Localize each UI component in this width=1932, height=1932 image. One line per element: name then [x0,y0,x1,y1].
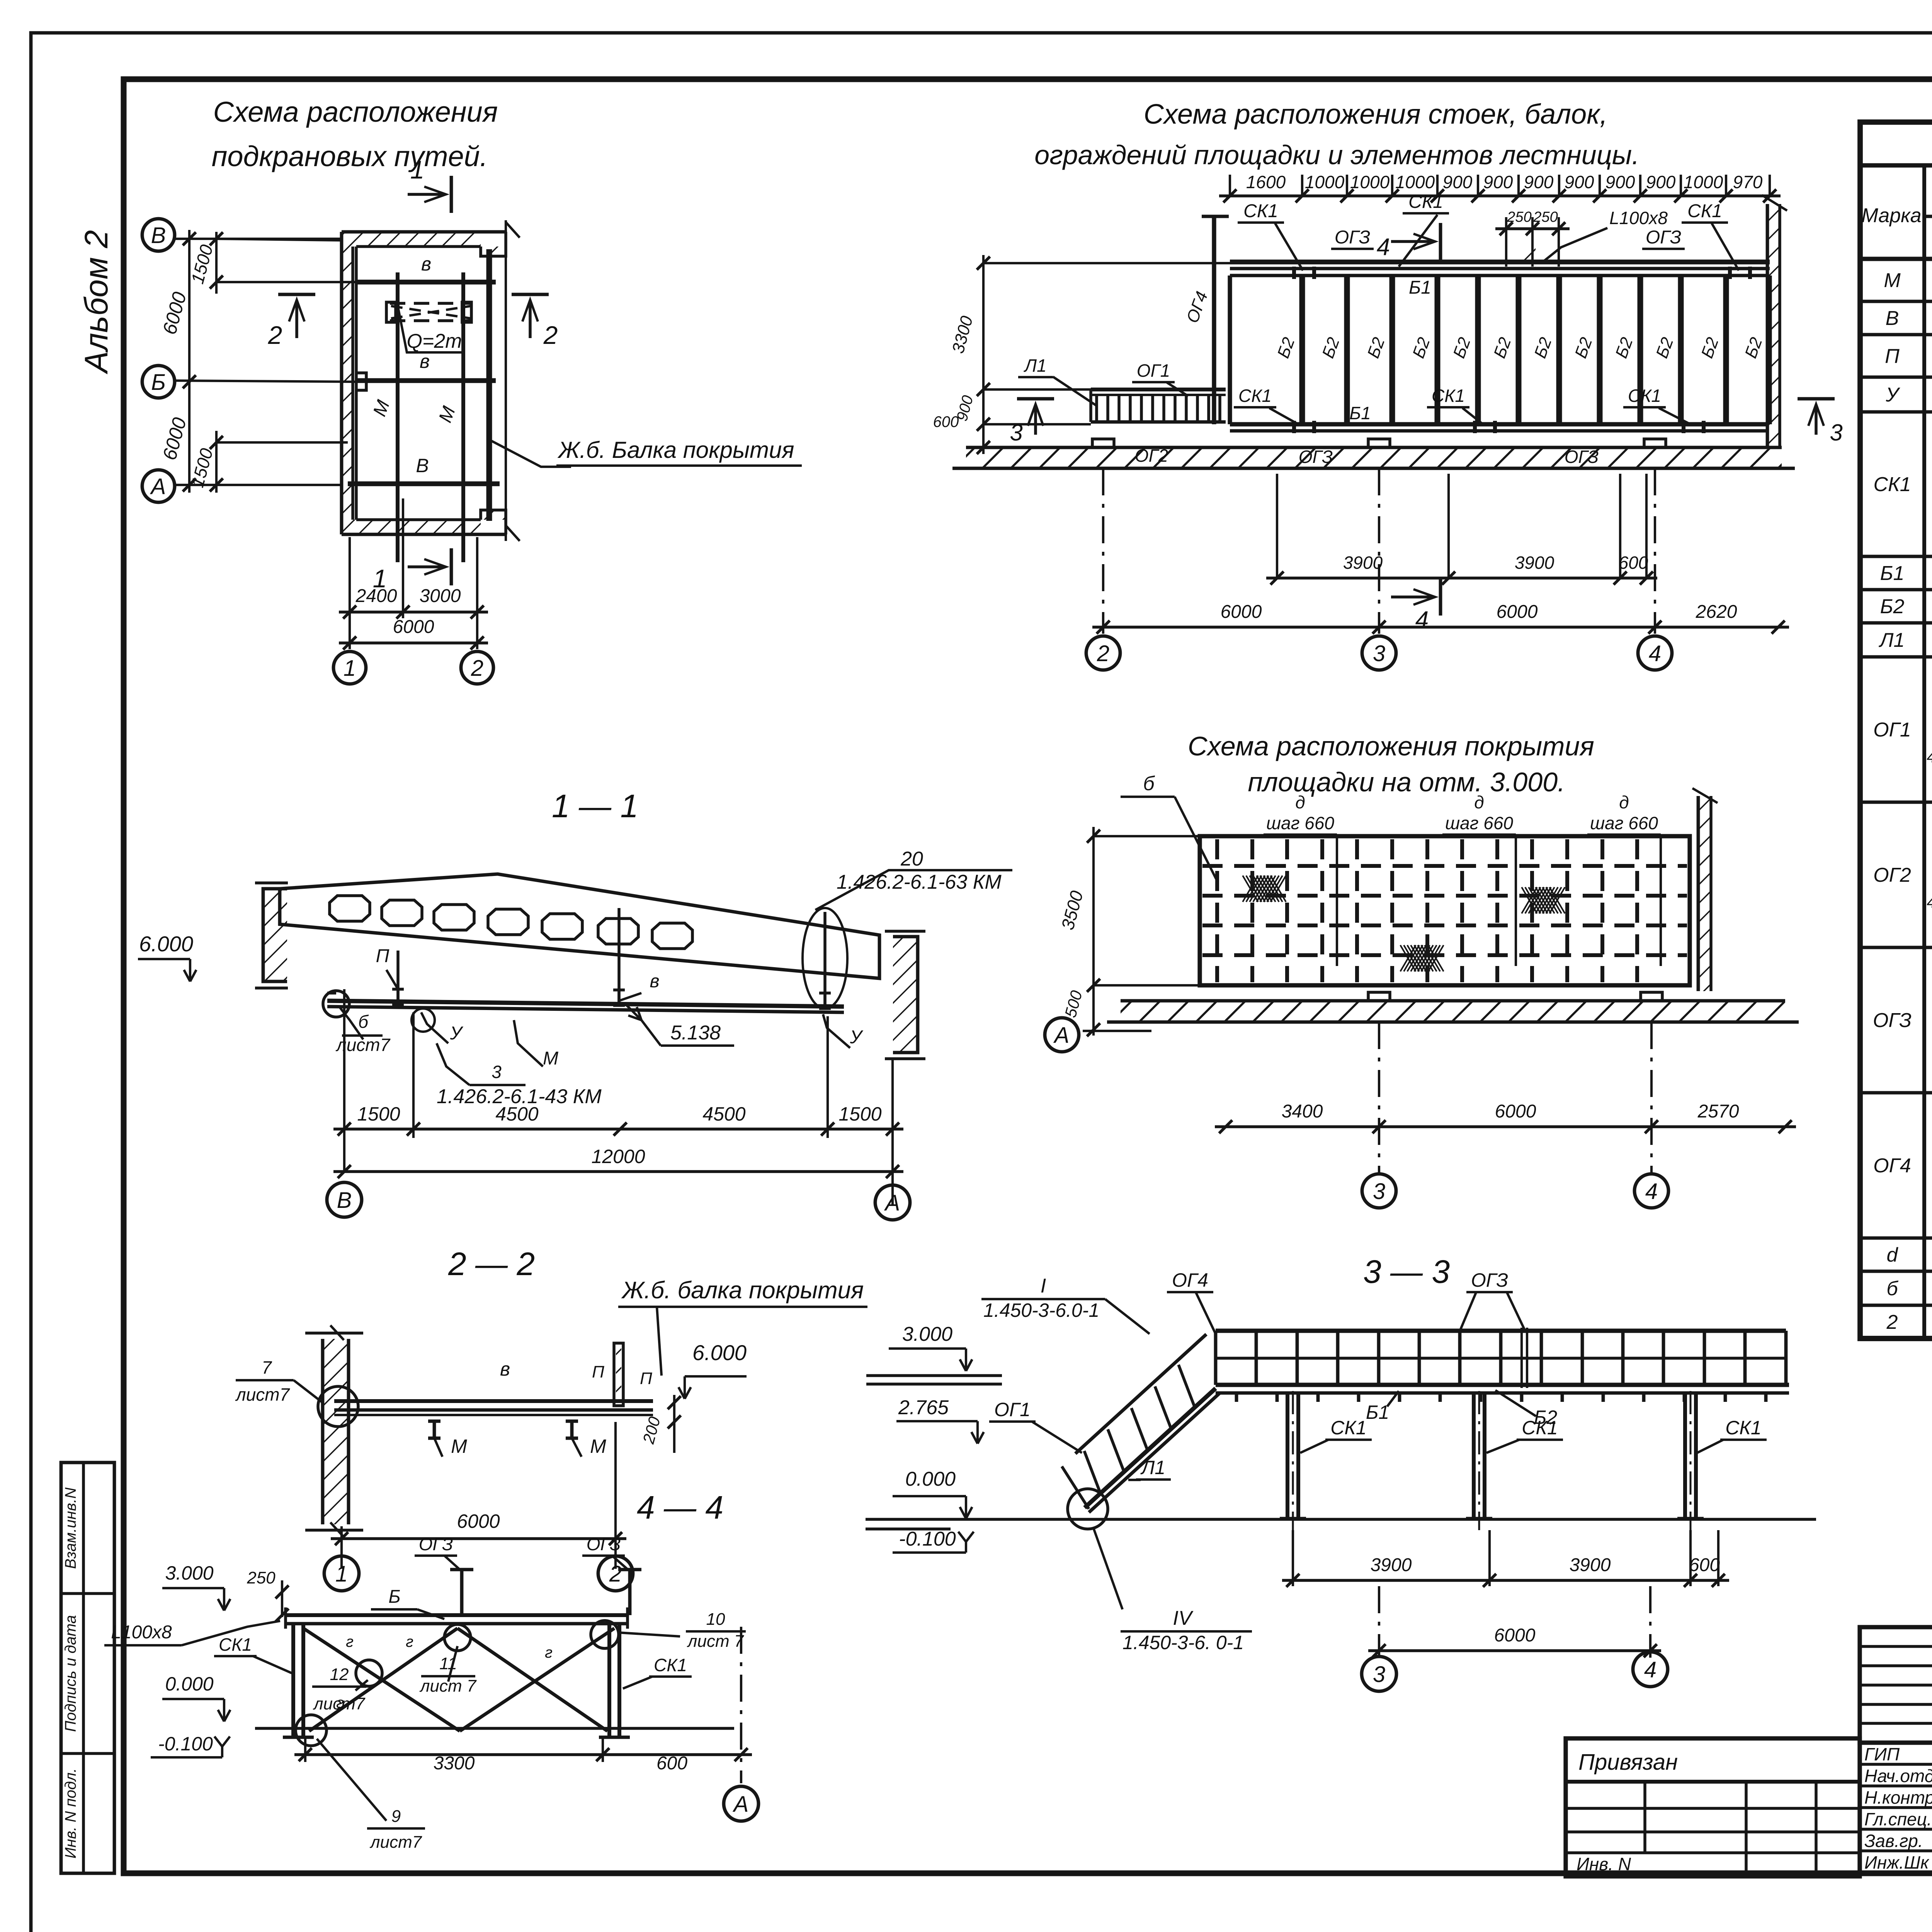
svg-text:П: П [640,1369,652,1388]
4-4 legs СК1 [291,1624,295,1737]
section mark 4 (bottom) [1391,595,1434,599]
svg-text:3000: 3000 [420,586,461,606]
svg-text:4: 4 [1415,607,1429,633]
1-1 grid circle А [875,1185,910,1220]
svg-text:У: У [450,1023,464,1044]
deck left dims 3500/500 [1092,827,1095,1036]
svg-text:ОГЗ: ОГЗ [1471,1269,1508,1291]
привязан table [1566,1738,1860,1876]
svg-text:12000: 12000 [591,1146,645,1167]
svg-text:1.450-3-6. 0-1: 1.450-3-6. 0-1 [1122,1632,1244,1653]
svg-text:3: 3 [1830,420,1842,446]
svg-text:ОГЗ: ОГЗ [1873,1009,1912,1032]
svg-text:2570: 2570 [1697,1101,1739,1122]
svg-text:б: б [358,1012,369,1032]
svg-text:3.000: 3.000 [165,1562,213,1584]
title block: staff rows block [1860,1743,1932,1873]
svg-text:СК1: СК1 [1432,386,1465,406]
svg-text:3900: 3900 [1570,1555,1611,1575]
svg-text:3.000: 3.000 [902,1323,952,1345]
svg-text:900: 900 [1565,172,1594,192]
svg-text:б: б [1143,772,1155,795]
section mark 3 (right) [1815,406,1818,435]
svg-text:ОГ2: ОГ2 [1135,446,1168,466]
2-2 detail circle at wall joint [318,1386,358,1427]
wall bottom band right ledge [481,510,506,534]
svg-text:6.000: 6.000 [139,932,193,956]
3-3 dim 6000 [1368,1649,1661,1652]
axis line А [175,484,342,486]
svg-text:СК1: СК1 [1725,1417,1761,1439]
svg-text:250: 250 [1507,209,1531,225]
floor band below deck [1121,999,1785,1003]
svg-text:Схема расположения пок: Схема расположения покрытия [1188,731,1594,761]
3-3 elevation 0.000 [960,1507,966,1519]
1-1 grid circle В [327,1182,362,1217]
wall inner edge line [355,247,358,520]
3-3 railing posts [1214,1331,1218,1385]
svg-text:Схема расположения: Схема расположения [213,96,498,128]
1-1 detail bubble 20 / 1.426.2-6.1-63 КМ [803,908,847,1009]
2-2 channel П at right [614,1343,623,1406]
grid circle 4 (elevation) [1638,636,1672,670]
svg-text:СК1: СК1 [1243,201,1278,221]
bottom dimension 2400/3000 [339,611,488,614]
2-2 wall hatched [323,1339,349,1524]
svg-text:Л1: Л1 [1879,629,1905,651]
svg-text:2: 2 [268,321,282,349]
1-1 left wall hatched [263,889,287,981]
left margin stamp column [61,1463,114,1873]
svg-text:9: 9 [391,1807,401,1826]
svg-text:д: д [1474,792,1484,812]
1-1 roof slab holes [330,896,370,921]
svg-text:3400: 3400 [1282,1101,1323,1122]
section mark 2 (left) [295,301,298,338]
vertical dimension line 6000/6000 [188,230,190,493]
1-1 dimension chain 1500/4500/4500/1500 [333,1128,903,1131]
svg-text:Инв. N подл.: Инв. N подл. [62,1768,79,1859]
svg-text:М: М [1884,269,1901,292]
svg-text:600: 600 [1619,553,1648,573]
axis line В [175,238,342,240]
svg-text:в: в [650,971,659,992]
deck edge beam line [1230,274,1767,277]
crane beam В (middle) [355,378,496,383]
svg-text:1000: 1000 [1305,172,1345,192]
elements table: outer frame [1860,122,1932,1338]
svg-text:СК1: СК1 [1628,386,1661,406]
svg-text:А: А [733,1792,749,1817]
svg-text:Б1: Б1 [1880,562,1905,585]
wall top band right ledge [481,232,506,256]
svg-text:900: 900 [1483,172,1513,192]
4-4 platform deck [286,1613,628,1617]
svg-text:1500: 1500 [357,1103,400,1125]
vertical dimension 1500 bottom [215,431,218,493]
svg-text:900: 900 [1443,172,1473,192]
svg-text:2: 2 [609,1561,622,1587]
grid circle 1 [333,651,366,684]
axis line Б [175,381,355,382]
3-3 rail break mark [1520,1328,1523,1388]
svg-text:П: П [592,1362,604,1381]
svg-text:3300: 3300 [434,1753,475,1774]
svg-text:Б2: Б2 [1534,1406,1558,1428]
svg-text:6000: 6000 [393,617,434,637]
svg-text:Л1: Л1 [1140,1457,1165,1478]
svg-text:шаг 660: шаг 660 [1266,813,1334,833]
svg-text:250: 250 [247,1568,276,1587]
svg-text:г: г [346,1633,354,1650]
svg-text:6000: 6000 [1221,602,1262,622]
crane rail М (right) [461,272,465,562]
1-1 beam В end supports [323,991,349,1017]
svg-text:лист7: лист7 [369,1833,422,1852]
svg-text:ОГЗ: ОГЗ [1565,447,1599,467]
wall plan - vertical hatched band [342,232,353,534]
4-4 ground line [255,1727,734,1730]
svg-text:2: 2 [1886,1311,1898,1333]
svg-text:СК1: СК1 [1238,386,1272,406]
svg-text:подкрановых путей.: подкрановых путей. [212,140,488,172]
svg-text:3900: 3900 [1371,1555,1412,1575]
3-3 grid circle 3 [1362,1656,1396,1691]
svg-text:IV: IV [1173,1607,1193,1629]
grid circle 2 [461,651,493,684]
wall break marks [506,222,520,238]
svg-text:3900: 3900 [1343,553,1383,573]
svg-text:В: В [416,455,429,476]
dim chain 6000/6000/2620 [1092,626,1789,629]
svg-text:900: 900 [1605,172,1635,192]
svg-text:I: I [1041,1275,1046,1297]
1-1 dimension 12000 [333,1170,903,1173]
4-4 detail circles [296,1715,327,1746]
vertical dimension 1500 top [215,232,218,294]
floor pilaster notches [1092,439,1114,447]
svg-text:1000: 1000 [1395,172,1435,192]
svg-text:ОГЗ: ОГЗ [1299,447,1333,467]
upper handrail lines ОГЗ [1230,260,1770,265]
section mark 4 (top) [1391,240,1434,243]
svg-text:ОГ1: ОГ1 [994,1399,1031,1420]
grid circle 2 (elevation) [1086,636,1120,670]
2-2 beam В [334,1399,653,1403]
svg-text:2: 2 [471,656,483,681]
svg-text:1 — 1: 1 — 1 [552,788,638,824]
2-2 dim 6000 [331,1537,626,1540]
1-1 roof slab outline [280,874,879,978]
3-3 stair railing rail [1075,1334,1206,1454]
4-4 railing posts (section) [460,1570,464,1615]
svg-text:4 — 4: 4 — 4 [637,1489,723,1526]
svg-text:лист7: лист7 [235,1384,290,1405]
ОГ4 end post [1212,216,1216,424]
crane beam В (top) [355,280,496,285]
svg-text:г: г [545,1644,553,1661]
svg-text:600: 600 [1689,1555,1720,1575]
svg-text:П: П [1885,345,1900,367]
svg-text:Н.контр.: Н.контр. [1864,1787,1932,1808]
svg-text:Инж.Шк: Инж.Шк [1864,1852,1930,1872]
dim chain 3900/3900/600 [1266,577,1657,580]
title block: upper small table [1860,1627,1932,1743]
svg-text:д: д [1295,792,1305,812]
splice detail 250/250 + L100x8 [1495,227,1570,230]
2-2 I-symbol М (left) [428,1420,440,1423]
svg-text:в: в [421,253,431,275]
svg-text:6000: 6000 [457,1510,500,1532]
svg-text:2400: 2400 [355,586,397,606]
svg-text:4: 4 [1645,1179,1658,1204]
svg-text:СК1: СК1 [1330,1417,1366,1439]
svg-text:900: 900 [1646,172,1676,192]
axis center lines below floor [1102,468,1104,634]
svg-text:ОГЗ: ОГЗ [1646,227,1681,248]
4-4 axis А line [740,1627,742,1783]
svg-text:Ж.б. балка покрытия: Ж.б. балка покрытия [621,1277,864,1304]
beams Б2 (verticals) [1228,276,1232,424]
section mark 1 (top) [408,193,444,196]
2-2 grid circle 1 [324,1556,359,1591]
1-1 crane girder beam В [327,1001,844,1007]
svg-text:Б: Б [151,370,166,395]
svg-text:1000: 1000 [1684,172,1723,192]
svg-text:0.000: 0.000 [905,1468,956,1490]
1-1 elevation mark 6.000 [184,970,190,981]
2-2 I-symbol М (right) [566,1420,578,1423]
svg-text:М: М [590,1435,606,1457]
4-4 elevation 0.000 [218,1710,224,1721]
deck plan rectangle [1200,836,1690,985]
svg-text:В: В [151,223,166,248]
svg-text:в: в [500,1358,510,1380]
svg-text:В: В [337,1188,352,1213]
svg-text:ОГЗ: ОГЗ [1335,227,1370,248]
3-3 dim chain 3900/3900/600 [1282,1579,1729,1582]
svg-text:д: д [1619,792,1629,812]
3-3 detail circle IV at stair base [1068,1489,1108,1529]
table row lines [1860,300,1932,303]
svg-text:ограждений площадки и эле: ограждений площадки и элементов лестницы… [1034,140,1639,170]
svg-text:d: d [1887,1244,1899,1266]
4-4 elevation 3.000 [218,1599,224,1611]
svg-text:4500: 4500 [702,1103,745,1125]
svg-text:Схема расположения сто: Схема расположения стоек, балок, [1144,99,1607,130]
svg-text:Q=2т: Q=2т [406,330,462,352]
svg-text:6000: 6000 [1494,1625,1536,1646]
svg-text:ОГЗ: ОГЗ [587,1534,621,1554]
grid circle А (deck) [1045,1018,1079,1052]
3-3 stair railing posts [1084,1451,1100,1493]
cross marks on deck [1243,876,1286,902]
right wall vertical band [1767,204,1780,447]
svg-text:4: 4 [1927,748,1932,766]
svg-text:Б1: Б1 [1349,403,1371,423]
3-3 stair stringer [1085,1388,1216,1508]
2-2 wall break marks [330,1325,344,1340]
section mark 1 (bottom) [408,565,444,568]
section mark 2 (right) [529,301,532,338]
4-4 grid circle А [724,1786,759,1821]
crane girder line (right, thick) [486,249,492,521]
3-3 ground line [866,1518,1816,1521]
svg-text:СК1: СК1 [654,1655,687,1675]
svg-text:600: 600 [933,413,959,430]
svg-text:шаг 660: шаг 660 [1445,813,1513,833]
floor notches (deck) [1368,992,1390,1001]
svg-text:Альбом 2: Альбом 2 [78,230,114,374]
svg-text:1500: 1500 [838,1103,881,1125]
3-3 elevation 3.000 [960,1359,966,1371]
4-4 dim 3300/600 [294,1753,752,1756]
leader Ж.б. балка покрытия [491,440,571,467]
wall plan - bottom hatched band [353,520,481,534]
grid circle В [142,219,175,251]
svg-text:Л1: Л1 [1023,355,1046,376]
3-3 platform railing [1216,1328,1786,1333]
svg-text:4500: 4500 [495,1103,538,1125]
svg-text:3: 3 [1373,1662,1385,1687]
1-1 column ticks М [617,908,621,1005]
svg-text:900: 900 [1524,172,1554,192]
svg-text:ОГ1: ОГ1 [1137,361,1170,381]
svg-text:1.450-3-6.0-1: 1.450-3-6.0-1 [983,1299,1099,1321]
deck bottom dims 3400/6000/2570 [1215,1125,1796,1128]
svg-text:Б: Б [388,1587,400,1607]
svg-text:Взам.инв.N: Взам.инв.N [62,1488,79,1569]
floor slab hatched band [966,446,1782,449]
grid circle 3 (elevation) [1362,636,1396,670]
2-2 grid circle 2 [598,1556,633,1591]
svg-text:Гл.спец.: Гл.спец. [1864,1809,1932,1829]
svg-text:7: 7 [262,1357,272,1378]
section mark 3 (left) [1034,406,1037,435]
svg-text:А: А [1053,1023,1070,1048]
1-1 right wall hatched [893,937,918,1053]
svg-text:лист 7: лист 7 [687,1632,744,1651]
stair steps block Л1 [1091,388,1226,391]
svg-text:Марка: Марка [1861,204,1921,227]
svg-text:1600: 1600 [1246,172,1286,192]
bottom dimension 6000 [339,641,488,645]
svg-text:6000: 6000 [1497,602,1538,622]
svg-text:СК1: СК1 [1687,201,1722,221]
svg-text:4: 4 [1927,893,1932,911]
svg-text:Б1: Б1 [1409,277,1431,298]
svg-text:лист7: лист7 [313,1694,366,1713]
top dimension chain 1600..970 [1219,194,1781,197]
3-3 grid circle 4 [1633,1652,1668,1687]
deck axis lines [1378,1022,1380,1173]
svg-text:4: 4 [1649,641,1661,666]
svg-text:ОГ4: ОГ4 [1172,1269,1208,1291]
svg-text:2: 2 [543,321,558,349]
svg-text:Зав.гр.: Зав.гр. [1864,1831,1923,1851]
svg-text:шаг 660: шаг 660 [1590,813,1658,833]
svg-text:б: б [1886,1277,1898,1300]
svg-text:0.000: 0.000 [165,1673,213,1695]
pilaster notch at axis Б [356,373,366,390]
svg-text:6000: 6000 [1495,1101,1536,1122]
left dims 3300/900/600 [982,255,985,454]
bottom beam Б1 lines [1230,422,1767,426]
svg-text:1000: 1000 [1350,172,1390,192]
svg-text:970: 970 [1733,172,1763,192]
svg-text:1.426.2-6.1-63 КМ: 1.426.2-6.1-63 КМ [837,871,1002,893]
grid circle Б [142,366,175,398]
svg-text:4: 4 [1644,1657,1656,1682]
svg-text:Ж.б. Балка покрытия: Ж.б. Балка покрытия [557,437,794,463]
svg-text:1: 1 [344,656,356,681]
svg-text:СК1: СК1 [1873,473,1911,496]
3-3 elevation 2.765 [971,1432,978,1444]
svg-text:20: 20 [900,848,923,870]
svg-text:СК1: СК1 [1408,192,1443,212]
crane bridge (dashed) with Q=2т [390,302,472,305]
svg-text:ОГ1: ОГ1 [1873,719,1911,741]
svg-text:2: 2 [1097,641,1109,666]
svg-text:СК1: СК1 [219,1634,252,1655]
svg-text:1: 1 [410,155,425,184]
svg-text:ОГЗ: ОГЗ [419,1534,453,1554]
svg-text:Привязан: Привязан [1578,1750,1678,1775]
svg-text:Б2: Б2 [1880,595,1905,618]
svg-text:-0.100: -0.100 [158,1733,213,1755]
svg-text:Инв. N: Инв. N [1577,1854,1631,1874]
svg-text:5.138: 5.138 [670,1022,721,1044]
svg-text:2.765: 2.765 [898,1396,949,1419]
grid circle 3 (deck) [1362,1174,1396,1208]
svg-text:250: 250 [1533,209,1558,225]
4-4 X bracing [303,1628,460,1731]
wall plan - top hatched band [353,232,481,247]
svg-text:П: П [376,946,389,966]
svg-text:3: 3 [1010,420,1022,446]
svg-text:Подпись и дата: Подпись и дата [62,1615,79,1732]
table header cells [1922,165,1926,1338]
3-3 deck lines [1216,1383,1789,1387]
svg-text:Нач.отд.: Нач.отд. [1864,1766,1932,1786]
grid circle А [142,470,175,502]
svg-text:А: А [884,1190,900,1216]
svg-text:L100x8: L100x8 [1609,208,1668,228]
svg-text:1: 1 [335,1561,348,1587]
svg-text:Б1: Б1 [1366,1401,1389,1423]
svg-text:12: 12 [330,1665,349,1684]
right wall band (deck) [1698,796,1711,991]
svg-text:У: У [850,1027,864,1048]
svg-text:М: М [543,1048,558,1069]
svg-text:М: М [451,1435,467,1457]
svg-text:3: 3 [492,1062,502,1082]
svg-text:2 — 2: 2 — 2 [448,1246,535,1282]
svg-text:г: г [406,1633,413,1650]
deck dashed verticals [1215,839,1219,982]
svg-text:3 — 3: 3 — 3 [1363,1253,1450,1290]
svg-text:У: У [1885,384,1900,406]
svg-text:L100x8: L100x8 [111,1622,172,1643]
svg-text:3: 3 [1373,1179,1385,1204]
svg-text:3900: 3900 [1515,553,1554,573]
svg-text:в: в [420,350,430,372]
svg-text:А: А [150,474,166,499]
svg-text:4: 4 [1377,234,1390,260]
svg-text:ОГ2: ОГ2 [1873,864,1911,886]
deck dashed horizontals [1202,864,1687,868]
2-2 elevation 6.000 [679,1387,685,1399]
